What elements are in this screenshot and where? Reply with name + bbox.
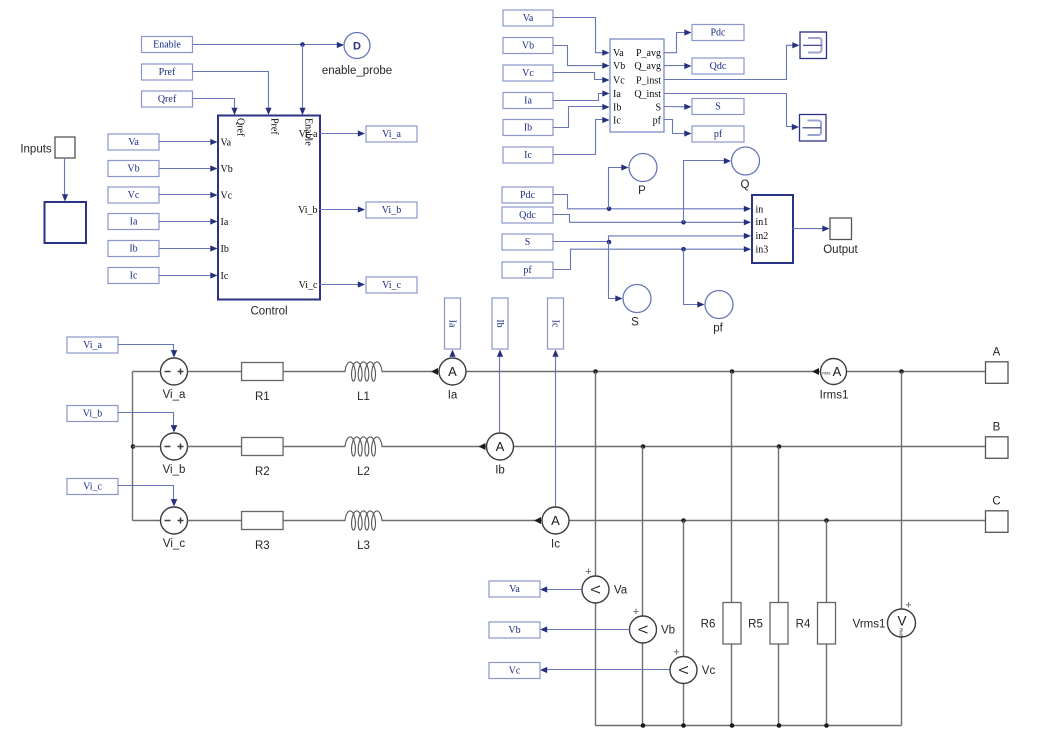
- svg-text:Vc: Vc: [702, 665, 716, 677]
- svg-text:Va: Va: [523, 13, 534, 24]
- svg-text:A: A: [448, 364, 457, 379]
- signal tag Pref: [142, 64, 193, 80]
- ammeter Ic: [534, 507, 569, 551]
- block power meter U_pwr: [610, 39, 664, 132]
- svg-text:in1: in1: [756, 217, 769, 228]
- signal tag Ib_ctl: [108, 241, 159, 257]
- probe enable_probe: [322, 33, 392, 78]
- junction C-R4: [824, 518, 829, 523]
- junction Enable net: [300, 42, 305, 47]
- probe Q: [732, 147, 760, 191]
- junction pf net: [681, 247, 686, 252]
- svg-text:Vi_a: Vi_a: [382, 129, 401, 140]
- svg-text:P_avg: P_avg: [636, 48, 661, 59]
- signal tag Ia_m: [503, 93, 553, 109]
- resistor R2: [242, 438, 283, 479]
- resistor R5: [748, 603, 788, 645]
- wire Vc to power meter: [553, 73, 604, 80]
- svg-text:Ib: Ib: [494, 319, 505, 327]
- wire Qdc net to probe Q: [684, 161, 729, 223]
- signal tag Ib_m: [503, 120, 553, 136]
- signal tag Vi_b_f: [67, 406, 118, 422]
- svg-text:Vi_a: Vi_a: [83, 340, 102, 351]
- probe S: [623, 285, 651, 329]
- svg-text:S: S: [525, 237, 531, 248]
- ammeter Ib: [479, 433, 514, 477]
- wire bottom bus: [596, 725, 902, 727]
- signal tag Vi_a_f: [67, 337, 118, 353]
- wire Pdc net to probe P: [609, 168, 627, 209]
- signal tag Ic (vertical): [548, 298, 564, 349]
- svg-text:Ic: Ic: [130, 271, 138, 282]
- scope Scope1: [800, 32, 827, 59]
- svg-text:Ia: Ia: [130, 217, 138, 228]
- svg-text:C: C: [992, 496, 1000, 508]
- signal tag S_t: [692, 99, 744, 115]
- svg-text:L1: L1: [357, 391, 370, 403]
- ammeter Irms1: [812, 359, 848, 402]
- svg-text:RMS: RMS: [822, 372, 831, 376]
- svg-text:V: V: [588, 585, 602, 594]
- wire P_avg to Pdc tag: [664, 33, 686, 53]
- svg-text:Ib: Ib: [613, 102, 621, 113]
- svg-text:Va: Va: [128, 137, 139, 148]
- wire row C down to voltmeter Vc: [683, 521, 685, 657]
- junction A-Va: [593, 369, 598, 374]
- wire voltmeter Va to bottom bus: [595, 603, 597, 726]
- wire Q_avg to Qdc tag: [664, 65, 686, 67]
- junction bus x=683.5: [681, 723, 686, 728]
- svg-text:Vi_b: Vi_b: [83, 409, 102, 420]
- svg-text:Vb: Vb: [522, 41, 534, 52]
- signal tag pf2: [502, 262, 553, 278]
- svg-text:R2: R2: [255, 466, 270, 478]
- wire R1 to L1: [283, 371, 346, 373]
- inductor L1: [345, 362, 382, 403]
- wire R5 to bottom bus: [778, 644, 780, 726]
- svg-text:R4: R4: [796, 619, 811, 631]
- signal tag Ia (vertical): [445, 298, 461, 349]
- wire S to mux in2: [553, 236, 746, 242]
- svg-text:Vi_c: Vi_c: [382, 280, 401, 291]
- wire Vi_c tag to source: [118, 486, 174, 505]
- svg-text:Vb: Vb: [661, 625, 675, 637]
- wire ammeter Ia to tag: [452, 355, 454, 359]
- svg-text:Ic: Ic: [549, 320, 560, 328]
- wire Ib to Control: [159, 248, 213, 250]
- signal tag Qdc: [692, 58, 744, 74]
- svg-text:pf: pf: [523, 265, 532, 276]
- signal tag Vc_ctl: [108, 187, 159, 203]
- svg-text:Enable: Enable: [153, 40, 181, 51]
- svg-text:L3: L3: [357, 540, 370, 552]
- wire source Vi_a to R1: [188, 371, 242, 373]
- scope Scope2: [800, 115, 827, 142]
- wire bus to source: [133, 520, 161, 522]
- svg-text:V: V: [897, 614, 906, 629]
- svg-text:Vc: Vc: [522, 68, 534, 79]
- svg-text:Ib: Ib: [524, 123, 532, 134]
- svg-text:+: +: [633, 606, 639, 618]
- svg-text:Ic: Ic: [613, 115, 621, 126]
- svg-text:R1: R1: [255, 391, 270, 403]
- svg-text:A: A: [993, 347, 1001, 359]
- signal tag Vb_g: [489, 622, 540, 638]
- svg-text:Vi_c: Vi_c: [83, 482, 102, 493]
- svg-text:S: S: [715, 102, 721, 113]
- svg-text:Ia: Ia: [221, 217, 229, 228]
- svg-text:Qref: Qref: [235, 118, 246, 137]
- signal tag Ib (vertical): [492, 298, 508, 349]
- svg-text:+: +: [905, 600, 911, 612]
- svg-text:A: A: [551, 513, 560, 528]
- junction bus x=732: [730, 723, 735, 728]
- svg-text:A: A: [496, 439, 505, 454]
- wire Pref to Control: [193, 72, 269, 110]
- wire S net to probe S: [609, 242, 621, 299]
- svg-text:Ib: Ib: [129, 244, 137, 255]
- wire R6 to bottom bus: [731, 644, 733, 726]
- svg-text:Vi_b: Vi_b: [382, 205, 401, 216]
- svg-text:R5: R5: [748, 619, 763, 631]
- svg-text:Vc: Vc: [509, 666, 521, 677]
- svg-text:in: in: [756, 205, 764, 216]
- svg-text:Ib: Ib: [221, 244, 229, 255]
- signal tag Vi_c_f: [67, 479, 118, 495]
- svg-text:Vc: Vc: [613, 75, 625, 86]
- voltage source Vi_c: [161, 507, 188, 550]
- signal tag Vi_a_out: [366, 126, 417, 142]
- wire L1 to ammeter Ia: [382, 371, 439, 373]
- wire Qref to Control: [193, 99, 235, 110]
- svg-text:Ib: Ib: [495, 465, 505, 477]
- wire L3 to ammeter Ic: [382, 520, 542, 522]
- signal tag Pdc2: [502, 187, 553, 203]
- resistor R6: [701, 603, 741, 645]
- wire Vc to Control: [159, 194, 213, 196]
- wire Vb to Control: [159, 168, 213, 170]
- svg-text:Va: Va: [221, 137, 232, 148]
- svg-text:Control: Control: [250, 306, 287, 318]
- port marker A: [986, 347, 1009, 384]
- svg-text:enable_probe: enable_probe: [322, 65, 392, 77]
- wire voltmeter Vb to bottom bus: [642, 643, 644, 726]
- voltmeter Vrms1: [853, 600, 916, 638]
- svg-text:Ia: Ia: [524, 96, 532, 107]
- svg-text:in2: in2: [756, 231, 769, 242]
- signal tag Vi_b_out: [366, 202, 417, 218]
- wire Va to Control: [159, 141, 213, 143]
- junction A-Vrms: [899, 369, 904, 374]
- wire Q_inst to scope Scope2: [664, 94, 793, 127]
- signal tag Qdc2: [502, 207, 553, 223]
- probe pf: [705, 291, 733, 335]
- wire Enable tag to enable_probe: [193, 44, 343, 46]
- svg-text:Vb: Vb: [221, 164, 233, 175]
- wire bus to source: [133, 446, 161, 448]
- svg-text:Va: Va: [614, 585, 628, 597]
- wire R2 to L2: [283, 446, 346, 448]
- svg-text:+: +: [673, 647, 679, 659]
- wire Vrms1 to bottom bus: [901, 637, 903, 726]
- signal tag pf_t: [692, 126, 744, 142]
- signal tag Ic_ctl: [108, 268, 159, 284]
- wire mux to Output: [793, 228, 825, 230]
- junction Pdc net: [607, 207, 612, 212]
- signal tag Vc_m: [503, 65, 553, 81]
- svg-text:Pref: Pref: [269, 118, 280, 135]
- wire Ic to power meter: [553, 120, 604, 155]
- junction bus x=779: [777, 723, 782, 728]
- wire row B down to voltmeter Vb: [642, 447, 644, 616]
- svg-text:Ic: Ic: [524, 150, 532, 161]
- wire Ia to Control: [159, 221, 213, 223]
- svg-text:Ia: Ia: [446, 320, 457, 328]
- signal tag Va_m: [503, 10, 553, 26]
- svg-text:Vi_a: Vi_a: [299, 129, 318, 140]
- svg-text:S: S: [631, 317, 639, 329]
- svg-text:R3: R3: [255, 540, 270, 552]
- svg-text:RMS: RMS: [899, 628, 904, 638]
- svg-text:A: A: [833, 364, 842, 379]
- wire S to S tag: [664, 106, 686, 108]
- svg-text:Q_inst: Q_inst: [634, 89, 661, 100]
- wire voltmeter Vb to tag: [545, 629, 630, 631]
- wire Inputs to subsystem square: [64, 158, 66, 200]
- svg-text:Irms1: Irms1: [820, 390, 849, 402]
- wire R3 to L3: [283, 520, 346, 522]
- wire pf to mux in3: [553, 249, 746, 269]
- wire Ic to Control: [159, 275, 213, 277]
- signal tag Va_ctl: [108, 134, 159, 150]
- svg-text:Vi_b: Vi_b: [298, 205, 317, 216]
- junction Qdc net: [681, 220, 686, 225]
- wire Ib to power meter: [553, 107, 604, 128]
- wire row A to port A: [466, 371, 986, 373]
- wire row A down to R6: [731, 372, 733, 603]
- svg-text:Vi_a: Vi_a: [163, 389, 186, 401]
- wire voltmeter Vc to bottom bus: [683, 684, 685, 726]
- wire Qdc to mux in1: [553, 215, 746, 223]
- port marker C: [986, 496, 1009, 533]
- wire voltmeter Vc to tag: [545, 669, 670, 671]
- wire Enable net down to Control: [302, 45, 304, 110]
- svg-text:B: B: [993, 422, 1001, 434]
- svg-text:+: +: [585, 566, 591, 578]
- wire row C down to R4: [826, 521, 828, 603]
- block signal mux: [752, 195, 793, 263]
- junction bus x=643: [641, 723, 646, 728]
- voltage source Vi_a: [161, 358, 188, 401]
- voltmeter Vc: [670, 647, 715, 684]
- svg-text:Q_avg: Q_avg: [634, 61, 661, 72]
- wire Vi_b tag to source: [118, 413, 174, 431]
- wire row A down to Vrms1: [901, 372, 903, 609]
- svg-text:Vb: Vb: [613, 61, 625, 72]
- voltage source Vi_b: [161, 433, 188, 476]
- inductor L3: [345, 511, 382, 552]
- signal tag Qref: [142, 91, 193, 107]
- resistor R1: [242, 363, 283, 404]
- svg-text:Ic: Ic: [551, 539, 560, 551]
- wire Control Vi_a to tag: [320, 133, 360, 135]
- wire bus to source: [133, 371, 161, 373]
- junction B-R5: [777, 444, 782, 449]
- resistor R4: [796, 603, 836, 645]
- svg-text:Vi_b: Vi_b: [163, 464, 186, 476]
- svg-text:Q: Q: [741, 179, 750, 191]
- resistor R3: [242, 512, 283, 553]
- wire row B to port B: [514, 446, 986, 448]
- subsystem square block: [45, 202, 87, 243]
- inductor L2: [345, 437, 382, 478]
- wire Vi_a tag to source: [118, 345, 174, 356]
- signal tag Pdc: [692, 25, 744, 41]
- wire Ia to power meter: [553, 94, 604, 101]
- wire ammeter Ic to tag: [555, 355, 557, 507]
- svg-text:Vb: Vb: [127, 164, 139, 175]
- signal tag Vc_g: [489, 663, 540, 679]
- svg-text:Pref: Pref: [159, 67, 176, 78]
- svg-text:V: V: [636, 625, 650, 634]
- wire pf net to probe pf: [684, 249, 703, 304]
- svg-text:Vb: Vb: [508, 625, 520, 636]
- svg-text:D: D: [353, 41, 361, 53]
- junction source bus row B: [131, 444, 136, 449]
- probe P: [629, 154, 657, 198]
- svg-text:Vc: Vc: [221, 190, 233, 201]
- wire ammeter Ib to tag: [499, 355, 501, 433]
- svg-text:Qdc: Qdc: [710, 61, 727, 72]
- wire source Vi_b to R2: [188, 446, 242, 448]
- wire source Vi_c to R3: [188, 520, 242, 522]
- svg-text:Qref: Qref: [158, 94, 177, 105]
- wire R4 to bottom bus: [826, 644, 828, 726]
- wire L2 to ammeter Ib: [382, 446, 487, 448]
- svg-text:S: S: [655, 102, 661, 113]
- svg-text:L2: L2: [357, 466, 370, 478]
- svg-text:Qdc: Qdc: [519, 210, 536, 221]
- signal tag Va_g: [489, 581, 540, 597]
- svg-text:P_inst: P_inst: [636, 75, 661, 86]
- svg-text:Vi_c: Vi_c: [163, 538, 185, 550]
- wire row B down to R5: [778, 447, 780, 603]
- svg-text:Output: Output: [823, 244, 858, 256]
- svg-text:pf: pf: [714, 129, 723, 140]
- signal tag Vb_m: [503, 38, 553, 54]
- signal tag Enable: [142, 37, 193, 53]
- junction C-Vc: [681, 518, 686, 523]
- svg-text:Ic: Ic: [221, 271, 229, 282]
- junction A-R6: [730, 369, 735, 374]
- junction B-Vb: [641, 444, 646, 449]
- svg-text:in3: in3: [756, 244, 769, 255]
- svg-text:Pdc: Pdc: [711, 28, 727, 39]
- svg-text:Ia: Ia: [613, 89, 621, 100]
- wire Control Vi_b to tag: [320, 209, 360, 211]
- wire P_inst to scope Scope1: [664, 45, 793, 79]
- wire source common bus: [132, 372, 134, 521]
- signal tag Vi_c_out: [366, 277, 417, 293]
- signal tag Vb_ctl: [108, 161, 159, 177]
- ammeter Ia: [431, 358, 466, 402]
- wire Va to power meter: [553, 18, 604, 53]
- wire row A down to voltmeter Va: [595, 372, 597, 576]
- svg-text:Ia: Ia: [448, 390, 458, 402]
- signal tag Ia_ctl: [108, 214, 159, 230]
- wire pf to pf tag: [664, 120, 686, 134]
- svg-text:Vc: Vc: [128, 190, 140, 201]
- svg-text:pf: pf: [713, 323, 723, 335]
- port marker B: [986, 422, 1009, 459]
- signal tag S2: [502, 234, 553, 250]
- subsystem Control: [218, 116, 320, 300]
- svg-text:R6: R6: [701, 619, 716, 631]
- svg-text:Vi_c: Vi_c: [299, 280, 318, 291]
- junction S net: [607, 240, 612, 245]
- wire Control Vi_c to tag: [320, 284, 360, 286]
- svg-text:Vrms1: Vrms1: [853, 619, 886, 631]
- svg-text:P: P: [638, 185, 646, 197]
- junction bus x=826.5: [824, 723, 829, 728]
- svg-text:Inputs: Inputs: [20, 144, 52, 156]
- svg-text:Pdc: Pdc: [520, 190, 536, 201]
- svg-text:V: V: [676, 666, 690, 675]
- wire row C to port C: [569, 520, 986, 522]
- svg-text:Va: Va: [613, 48, 624, 59]
- wire Vb to power meter: [553, 46, 604, 66]
- svg-text:pf: pf: [653, 115, 662, 126]
- port marker Inputs: [55, 137, 75, 158]
- svg-text:Va: Va: [509, 584, 520, 595]
- port marker Output: [830, 218, 852, 240]
- voltmeter Va: [582, 566, 628, 603]
- wire Pdc to mux in: [553, 195, 746, 209]
- signal tag Ic_m: [503, 147, 553, 163]
- voltmeter Vb: [630, 606, 676, 643]
- wire voltmeter Va to tag: [545, 589, 582, 591]
